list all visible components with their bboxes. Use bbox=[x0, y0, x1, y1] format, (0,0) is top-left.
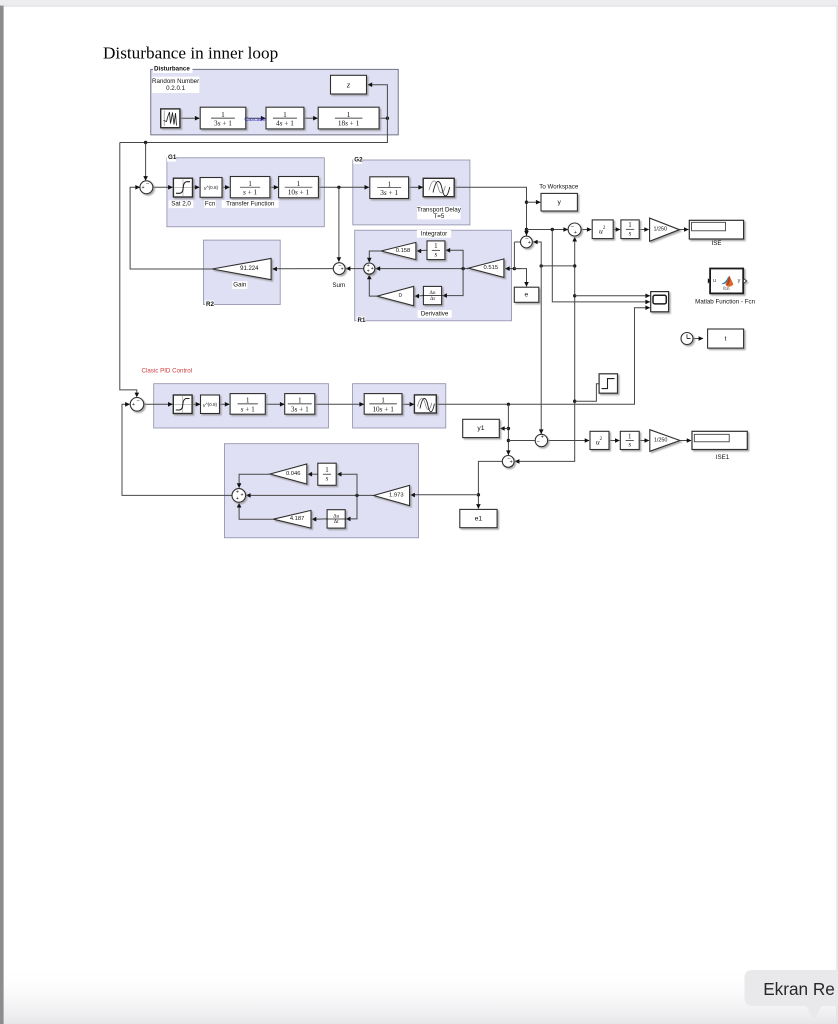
gain 1.973 PID bbox=[374, 485, 410, 505]
svg-text:R1: R1 bbox=[358, 317, 366, 324]
svg-text:z: z bbox=[346, 80, 351, 89]
arrow into sum S9 right bbox=[515, 459, 520, 464]
svg-text:+: + bbox=[541, 435, 544, 441]
label Derivative bbox=[418, 310, 452, 318]
sum S1 loop1 input bbox=[140, 181, 153, 194]
junction dot to ISE sum chain bbox=[525, 228, 528, 231]
svg-text:G1: G1 bbox=[168, 154, 177, 161]
wire y1 to sum S8 left bbox=[508, 440, 534, 442]
svg-text:e1: e1 bbox=[475, 515, 483, 522]
transfer function 1/(4s+1) disturbance bbox=[266, 107, 304, 129]
svg-text:0.158: 0.158 bbox=[396, 248, 411, 254]
arrow into sum S5 bottom bbox=[572, 237, 577, 242]
svg-text:Random Number: Random Number bbox=[152, 78, 199, 85]
wire sum S4 output left bbox=[514, 241, 520, 243]
gain 0 R1 bbox=[377, 286, 414, 305]
wire setpoint up to sum S4 right bbox=[533, 242, 541, 266]
to workspace block y bbox=[541, 193, 577, 211]
wire gain 4.187 up to sum S7 bottom bbox=[239, 503, 273, 519]
integrator block 1/s R1 bbox=[427, 241, 445, 260]
wire sum S4 output down bbox=[513, 242, 515, 269]
wire setpoint horizontal bbox=[541, 265, 575, 267]
wire random source to TF 1/(3s+1) bbox=[180, 117, 199, 119]
svg-text:Clasic PID Control: Clasic PID Control bbox=[142, 367, 193, 374]
wire junction down to Sum S2 top bbox=[338, 187, 340, 261]
wire R1 branch up to integrator 1/s bbox=[446, 250, 463, 268]
sum S3 R1 internal bbox=[364, 263, 375, 274]
svg-text:+: + bbox=[528, 240, 531, 246]
svg-text:1: 1 bbox=[628, 222, 632, 229]
right gray edge strip bbox=[836, 6, 838, 1024]
wire Sum S2 output to gain 91.224 bbox=[272, 268, 333, 270]
junction dot setpoint to S4 bbox=[573, 264, 576, 267]
gain 0.515 R1 bbox=[469, 259, 504, 278]
wire error to e display block bbox=[514, 269, 526, 287]
svg-text:0: 0 bbox=[399, 293, 402, 299]
group box Disturbance bbox=[151, 69, 398, 135]
z block bbox=[331, 75, 367, 94]
wire S1 to saturation Sat1 bbox=[153, 186, 173, 188]
group box G2 bbox=[353, 160, 470, 225]
svg-text:1: 1 bbox=[628, 433, 632, 440]
svg-text:18s + 1: 18s + 1 bbox=[338, 118, 360, 127]
sum S2 Sum bbox=[333, 263, 345, 275]
transfer function 1/(s+1) loop1 bbox=[230, 177, 270, 198]
sum S4 error bbox=[521, 236, 533, 248]
wire clock to t block bbox=[693, 338, 703, 340]
label Transport Delay T=5 bbox=[417, 206, 461, 219]
svg-text:y: y bbox=[738, 278, 741, 284]
integrator block 1/s PID bbox=[318, 463, 336, 485]
svg-text:ISE1: ISE1 bbox=[716, 454, 730, 461]
wire TF 1/(4s+1) to TF 1/(18s+1) bbox=[304, 117, 318, 119]
group box R2 bbox=[204, 240, 281, 305]
label Fcn bbox=[204, 200, 216, 208]
wire from junction into R1 gain 0.515 bbox=[505, 268, 521, 270]
junction dot to sum S8 bbox=[507, 439, 510, 442]
svg-text:3s + 1: 3s + 1 bbox=[380, 188, 398, 197]
wire setpoint vertical down to sum S9 bbox=[515, 237, 575, 461]
svg-text:Gain: Gain bbox=[233, 282, 247, 289]
wire PID branch up to 1/s bbox=[337, 474, 357, 495]
wire gain 91.224 output feedback to sum S1 bbox=[130, 187, 212, 269]
matlab function block Fcn bbox=[708, 269, 747, 294]
svg-text:ISE: ISE bbox=[712, 240, 722, 247]
junction dot to y1 display bbox=[507, 427, 510, 430]
wire Sat2 to Fcn2 bbox=[192, 403, 200, 405]
wire du/dt to gain 4.187 bbox=[312, 518, 327, 520]
transfer function 1/(3s+1) G2 bbox=[370, 177, 409, 199]
wire gain 1/250 to ISE display bbox=[679, 229, 688, 231]
left gray edge bar bbox=[0, 6, 4, 1024]
wire setpoint to scope input 1 bbox=[575, 295, 650, 297]
svg-text:0.515: 0.515 bbox=[484, 265, 499, 271]
svg-text:G2: G2 bbox=[354, 156, 363, 163]
junction dot loop1 output bbox=[337, 186, 340, 189]
junction dot R1 internal bbox=[461, 267, 464, 270]
svg-text:+: + bbox=[510, 459, 513, 465]
wire 1/s to gain 1/250 2 bbox=[639, 440, 649, 442]
arrow into sum S7 right bbox=[246, 493, 251, 498]
wire to y1 display block bbox=[500, 428, 508, 430]
label Integrator bbox=[417, 230, 451, 238]
svg-text:Cascade: Cascade bbox=[244, 117, 265, 123]
wire gain 0.515 to sum S3 bbox=[376, 268, 469, 270]
junction dot PID internal bbox=[355, 494, 358, 497]
svg-text:R2: R2 bbox=[206, 301, 214, 308]
svg-text:s: s bbox=[435, 251, 438, 258]
group box R1 bbox=[355, 230, 512, 321]
svg-text:10s + 1: 10s + 1 bbox=[372, 404, 394, 413]
junction dot y1 branch bbox=[507, 403, 510, 406]
wire y1 vertical down to sum S9 bbox=[507, 404, 509, 455]
display block y1 bbox=[463, 419, 500, 437]
junction dot error signal e bbox=[513, 267, 516, 270]
group label G2 bbox=[353, 156, 362, 164]
svg-text:Disturbance in inner loop: Disturbance in inner loop bbox=[103, 44, 278, 63]
wire sum S6 to saturation Sat2 bbox=[144, 403, 173, 405]
saturation block Sat1 bbox=[173, 178, 192, 197]
wire disturbance down and left bbox=[120, 118, 388, 142]
gain 1/250 ISE1 bbox=[650, 430, 680, 452]
arrow into sum S9 top bbox=[506, 450, 511, 455]
svg-text:s: s bbox=[629, 230, 632, 237]
svg-text:+: + bbox=[574, 230, 577, 236]
svg-text:Disturbance: Disturbance bbox=[154, 66, 190, 73]
tooltip bubble Ekran Re bbox=[745, 970, 838, 1018]
scope block bbox=[651, 292, 669, 312]
wire gain 1.973 to sum S7 bbox=[246, 494, 373, 496]
svg-text:–: – bbox=[146, 181, 149, 187]
step block setpoint bbox=[599, 374, 617, 393]
wire Fcn1 to TF 1/(s+1) bbox=[222, 186, 229, 188]
arrow into sum S4 top bbox=[524, 231, 529, 236]
display block e bbox=[514, 287, 539, 302]
wire gain 0.046 down to sum S7 top bbox=[239, 474, 270, 487]
label Sat 2,0 bbox=[169, 200, 194, 208]
wire TF 1/(3s+1) to TF 1/(10s+1) bbox=[315, 403, 364, 405]
sum S8 ISE1 input bbox=[535, 434, 547, 446]
label Random Number 0.2.0.1 bbox=[152, 77, 200, 93]
svg-text:y1: y1 bbox=[477, 425, 484, 432]
wire TF 1/(18s+1) output to junction bbox=[379, 117, 387, 119]
square block u^2 ISE1 bbox=[590, 431, 609, 449]
square block u^2 bbox=[592, 220, 613, 239]
display block ISE bbox=[689, 220, 743, 239]
wire y to sum S5 left bbox=[527, 229, 568, 231]
display block e1 bbox=[460, 509, 497, 527]
wire sum S9 output down bbox=[478, 461, 502, 508]
integrator block 1/s ISE1 bbox=[620, 431, 639, 449]
svg-text:0.046: 0.046 bbox=[286, 471, 301, 477]
junction dot setpoint branch bbox=[540, 264, 543, 267]
junction dot setpoint from step bbox=[573, 400, 576, 403]
wire transport delay output to right and down bbox=[454, 187, 526, 235]
junction dot disturbance output bbox=[386, 117, 389, 120]
svg-text:Integrator: Integrator bbox=[421, 230, 447, 237]
group box G1 bbox=[167, 158, 324, 227]
svg-text:s + 1: s + 1 bbox=[241, 404, 256, 413]
transfer function 1/(3s+1) loop2 bbox=[285, 394, 315, 415]
wire step block to setpoint line bbox=[575, 384, 599, 401]
svg-text:0.2.0.1: 0.2.0.1 bbox=[166, 85, 185, 92]
wire TF 1/(3s+1) to TF 1/(4s+1) bbox=[246, 117, 265, 119]
group label Disturbance bbox=[153, 65, 193, 73]
svg-text:s: s bbox=[628, 441, 631, 448]
wire sum S5 to u^2 block bbox=[581, 229, 591, 231]
group label R2 bbox=[205, 300, 214, 308]
junction dot scope tap bbox=[551, 228, 554, 231]
svg-text:91.224: 91.224 bbox=[240, 266, 259, 272]
wire TF 1/(10s+1) to G2 TF 1/(3s+1) bbox=[318, 186, 368, 188]
wire TF 1/(s+1) to TF 1/(3s+1) bbox=[265, 403, 284, 405]
svg-text:1: 1 bbox=[434, 243, 438, 250]
svg-text:Δt: Δt bbox=[334, 519, 339, 525]
junction dot setpoint to scope bbox=[573, 294, 576, 297]
svg-text:T=5: T=5 bbox=[433, 213, 444, 220]
junction dot disturbance to loop1 bbox=[144, 141, 147, 144]
svg-text:4s + 1: 4s + 1 bbox=[276, 118, 294, 127]
wire gain 1/250 to ISE1 display bbox=[680, 440, 691, 442]
derivative block du/dt R1 bbox=[423, 286, 441, 304]
transport delay block loop1 bbox=[423, 178, 454, 196]
transport delay block loop2 bbox=[414, 395, 436, 413]
svg-text:To Workspace: To Workspace bbox=[539, 184, 579, 191]
sum S6 loop2 input bbox=[130, 398, 144, 412]
wire derivative to gain 0 bbox=[415, 295, 424, 298]
svg-text:Ekran Re: Ekran Re bbox=[763, 979, 835, 999]
svg-text:3s + 1: 3s + 1 bbox=[214, 118, 232, 127]
arrow into sum S3 right bbox=[375, 266, 380, 271]
wire TF 1/(s+1) to TF 1/(10s+1) bbox=[270, 186, 278, 188]
svg-text:u^(0.8): u^(0.8) bbox=[204, 185, 219, 190]
wire sum S7 output feedback to sum S6 bbox=[122, 404, 232, 495]
svg-text:–: – bbox=[137, 398, 140, 404]
svg-text:+: + bbox=[236, 496, 239, 502]
svg-text:Sum: Sum bbox=[332, 282, 345, 289]
svg-text:+: + bbox=[132, 402, 135, 408]
wire disturbance down to loop2 sum S6 bbox=[120, 143, 137, 397]
gain 0.046 PID bbox=[270, 464, 307, 484]
gain 0.158 R1 bbox=[381, 242, 416, 259]
svg-text:t: t bbox=[725, 335, 727, 342]
svg-text:+: + bbox=[141, 185, 144, 191]
wire sum S8 to u^2 block 2 bbox=[548, 440, 589, 442]
group box classic PID controller bbox=[224, 444, 418, 538]
wire u^2 to 1/s bbox=[613, 229, 620, 231]
svg-text:–: – bbox=[537, 438, 540, 444]
svg-text:1/250: 1/250 bbox=[654, 438, 668, 444]
gain 91.224 R2 bbox=[212, 258, 271, 279]
sum S9 e1 bbox=[502, 456, 514, 468]
gain 1/250 ISE bbox=[650, 218, 680, 241]
wire y to scope input 2 bbox=[552, 230, 649, 302]
svg-text:4.187: 4.187 bbox=[290, 516, 305, 522]
junction dot e1 branch bbox=[477, 493, 480, 496]
svg-text:1.973: 1.973 bbox=[389, 493, 404, 499]
svg-text:Fcn: Fcn bbox=[205, 201, 216, 208]
svg-text:+: + bbox=[236, 489, 239, 495]
wire Fcn2 to TF 1/(s+1) bbox=[220, 403, 230, 405]
wire u^2 to 1/s 2 bbox=[609, 440, 619, 442]
svg-text:3s + 1: 3s + 1 bbox=[291, 404, 309, 413]
svg-text:1/250: 1/250 bbox=[654, 227, 668, 233]
fcn block u^(0.8) loop2 bbox=[201, 395, 220, 414]
label Sum bbox=[333, 282, 345, 290]
transfer function 1/(18s+1) disturbance bbox=[318, 107, 379, 129]
gain 4.187 PID bbox=[273, 510, 311, 528]
clock block bbox=[681, 333, 693, 345]
group box classic PID forward G1 bbox=[154, 384, 329, 428]
derivative block du/dt PID bbox=[327, 510, 345, 528]
svg-text:y: y bbox=[557, 199, 561, 206]
transfer function 1/(3s+1) disturbance bbox=[200, 107, 246, 129]
svg-text:u^(0.8): u^(0.8) bbox=[203, 402, 218, 407]
svg-text:Sat 2,0: Sat 2,0 bbox=[171, 201, 191, 208]
group box classic PID forward G2 bbox=[353, 384, 446, 428]
wire Sat1 to Fcn1 bbox=[193, 186, 200, 188]
transfer function 1/(s+1) loop2 bbox=[230, 394, 265, 415]
display block t bbox=[708, 329, 744, 348]
wire junction up to z block bbox=[368, 85, 388, 119]
arrow into e1 display block bbox=[476, 504, 481, 509]
fcn block u^(0.8) loop1 bbox=[200, 178, 222, 198]
wire 1/s to gain 1/250 bbox=[639, 229, 648, 231]
group label G1 bbox=[167, 154, 176, 162]
svg-text:1: 1 bbox=[325, 467, 329, 474]
wire setpoint down to sum S8 top bbox=[540, 266, 542, 434]
display block ISE1 bbox=[692, 431, 747, 449]
sum S7 PID internal bbox=[232, 489, 246, 503]
wire G2 TF to transport delay bbox=[409, 186, 423, 188]
svg-text:Transfer Function: Transfer Function bbox=[226, 201, 275, 208]
transfer function 1/(10s+1) loop2 bbox=[364, 394, 402, 415]
wire R1 branch down to derivative du/dt bbox=[443, 269, 464, 296]
random number source block bbox=[161, 109, 180, 128]
saturation block Sat2 bbox=[173, 395, 192, 414]
wire gain 0 up to sum S3 bottom bbox=[369, 275, 377, 296]
svg-text:Derivative: Derivative bbox=[421, 310, 449, 317]
svg-text:Matlab Function - Fcn: Matlab Function - Fcn bbox=[695, 298, 755, 305]
svg-text:s: s bbox=[326, 475, 329, 482]
label Transfer Function bbox=[222, 200, 279, 208]
integrator block 1/s ISE bbox=[621, 220, 639, 239]
wire to y To-Workspace block bbox=[527, 201, 541, 203]
svg-text:+: + bbox=[367, 269, 370, 275]
wire e1 to PID gain 1.973 bbox=[411, 494, 479, 496]
wire TF 1/(10s+1) to transport delay 2 bbox=[402, 403, 414, 405]
wire 1/s to gain 0.046 bbox=[308, 473, 318, 475]
junction dot to y block bbox=[525, 201, 528, 204]
svg-text:s + 1: s + 1 bbox=[243, 187, 258, 196]
top window bar bbox=[0, 0, 838, 6]
svg-text:10s + 1: 10s + 1 bbox=[288, 187, 310, 196]
wire gain 0.158 down to sum S3 top bbox=[369, 251, 381, 262]
wire y1 to scope input 3 bbox=[436, 308, 649, 405]
svg-text:+: + bbox=[371, 266, 374, 272]
label Gain bbox=[232, 281, 247, 289]
transfer function 1/(10s+1) loop1 bbox=[279, 177, 319, 198]
wire sum S3 output to Sum S2 bbox=[346, 268, 364, 270]
svg-text:u: u bbox=[713, 278, 716, 284]
wire integrator 1/s to gain 0.158 bbox=[417, 249, 427, 252]
svg-text:e: e bbox=[524, 292, 528, 299]
svg-text:+: + bbox=[341, 267, 344, 273]
wire PID branch down to du/dt 2 bbox=[346, 495, 357, 519]
svg-text:Δt: Δt bbox=[430, 296, 435, 302]
svg-text:+: + bbox=[240, 493, 243, 499]
wire down into sum S1 top bbox=[145, 143, 147, 180]
group label R1 bbox=[357, 317, 366, 325]
sum S5 ISE input bbox=[568, 223, 581, 236]
bottom gradient shading bbox=[0, 966, 838, 1024]
